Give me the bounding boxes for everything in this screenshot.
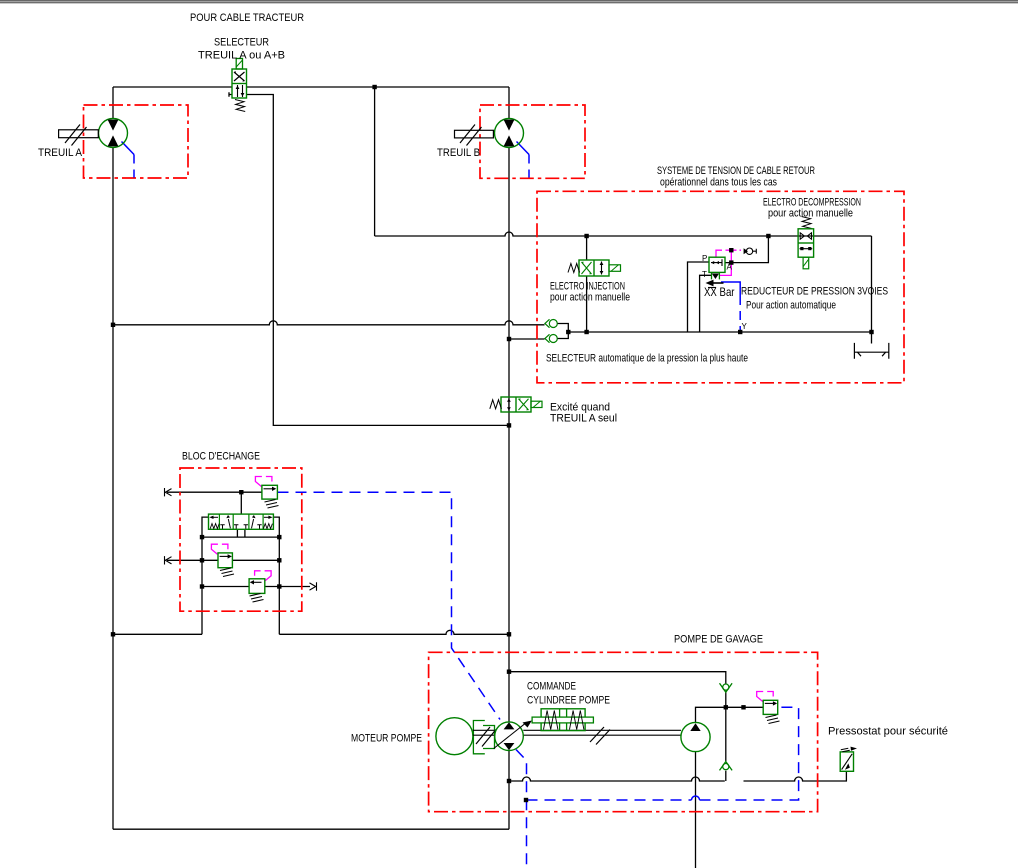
wire check valve to relief node bbox=[725, 693, 727, 708]
hydraulic motor winch A bbox=[99, 119, 128, 148]
svg-text:REDUCTEUR DE PRESSION 3VOIES: REDUCTEUR DE PRESSION 3VOIES bbox=[741, 286, 888, 298]
wire charge pump suction to tank x=695.5 bbox=[695, 752, 697, 868]
wire tension system feed line y=236 with jump over winch B line bbox=[375, 232, 872, 236]
valve V2 electro decompression bbox=[798, 217, 814, 269]
wire shuttle outlet node bbox=[558, 324, 569, 339]
svg-text:TREUIL A seul: TREUIL A seul bbox=[550, 413, 617, 425]
shaft winch A bbox=[59, 125, 99, 146]
tank symbol tension system bbox=[854, 343, 888, 359]
MAGENTA bbox=[211, 250, 773, 701]
enclosure box exchange block bbox=[180, 468, 302, 611]
svg-text:TREUIL A ou A+B: TREUIL A ou A+B bbox=[198, 50, 285, 62]
wire pump low pressure line y=781 with jumps bbox=[509, 777, 725, 781]
wire winch B tap to shuttle bottom y=339 bbox=[509, 338, 545, 340]
wire exchange valve top port x=241.3 bbox=[240, 492, 242, 514]
enclosure box charge pump bbox=[429, 652, 818, 811]
wire anti-cavitation check branch x=725.8 bbox=[725, 707, 727, 781]
enclosure box cable tension system bbox=[537, 191, 904, 382]
svg-text:SELECTEUR automatique de la pr: SELECTEUR automatique de la pression la … bbox=[546, 353, 748, 365]
fixed charge pump bbox=[681, 722, 710, 751]
wire relief supply line y=707.3 bbox=[696, 707, 764, 722]
drain line relief valve return with jump over suction line bbox=[527, 799, 692, 801]
drain line winch A bbox=[122, 142, 135, 155]
wire exchange right vertical x=279.3 bbox=[278, 537, 280, 634]
relief valve E3 exchange block bottom bbox=[249, 579, 265, 602]
junction nodes bbox=[372, 85, 376, 89]
wire exchange block top line y=492.2 bbox=[167, 491, 262, 493]
wire selector second outlet to node y=425 bbox=[229, 92, 509, 425]
wire reducer P-port supply bbox=[688, 262, 710, 332]
wire main pressure line A-B top y=87 bbox=[113, 86, 509, 88]
test point port B exchange bottom line bbox=[310, 582, 317, 590]
pilot bracket exchange valve 2 bbox=[211, 544, 228, 554]
variable displacement pump main bbox=[494, 721, 532, 751]
svg-text:POUR CABLE TRACTEUR: POUR CABLE TRACTEUR bbox=[190, 12, 304, 24]
wire winch B vertical x=509 bbox=[508, 87, 510, 829]
test coupling on reducer pilot bbox=[744, 248, 757, 254]
wire decompression outlet drop x=871.5 to tank bbox=[871, 236, 873, 344]
wire pressostat line y=781 with jump over blue drain bbox=[744, 771, 847, 781]
relief valve charge pressure bbox=[763, 700, 779, 723]
wire bottom return y=829.2 bbox=[113, 828, 509, 830]
svg-text:CYLINDREE POMPE: CYLINDREE POMPE bbox=[527, 695, 610, 707]
shaft winch B bbox=[455, 125, 494, 146]
pilot bracket charge relief valve bbox=[757, 692, 774, 702]
drain line pump case to tank bbox=[516, 750, 527, 868]
wire pilot line to shuttle top y=324.8 with crossover jumps bbox=[113, 321, 545, 325]
pilot bracket exchange valve 1 bbox=[255, 477, 272, 487]
svg-text:pour action manuelle: pour action manuelle bbox=[550, 292, 630, 304]
svg-text:Y: Y bbox=[742, 322, 748, 331]
top window border bar bbox=[0, 0, 1018, 1]
valve V1 selector winch A or A+B bbox=[232, 59, 247, 112]
wire charge pump top line y=671.7 bbox=[509, 672, 726, 684]
svg-text:POMPE DE GAVAGE: POMPE DE GAVAGE bbox=[674, 634, 763, 646]
enclosure box winch B bbox=[480, 105, 585, 178]
wire reducer T-port return bbox=[700, 275, 712, 332]
check valve anti-cavitation bbox=[720, 762, 733, 771]
hydraulic motor winch B bbox=[495, 119, 524, 148]
wire exchange left vertical x=202 bbox=[201, 537, 203, 634]
pilot line reducer sensing network bbox=[716, 250, 722, 257]
relief valve E1 exchange block top bbox=[262, 485, 279, 508]
svg-text:BLOC D'ECHANGE: BLOC D'ECHANGE bbox=[182, 451, 260, 463]
check valve charge top bbox=[720, 683, 733, 692]
svg-text:T: T bbox=[702, 270, 707, 279]
pilot bracket exchange valve 3 bbox=[255, 571, 272, 581]
shuttle valve automatic selector bbox=[545, 319, 557, 342]
svg-text:SYSTEME DE TENSION DE CABLE RE: SYSTEME DE TENSION DE CABLE RETOUR bbox=[657, 165, 815, 177]
enclosure box winch A bbox=[84, 105, 189, 178]
svg-text:MOTEUR POMPE: MOTEUR POMPE bbox=[351, 733, 422, 745]
valve V3 electro injection bbox=[568, 260, 621, 276]
wire branch from top line to tension system x=374.6 bbox=[374, 87, 376, 236]
valve V4 pressure reducer 3 ways bbox=[706, 257, 726, 287]
wire exchange middle line y=560.3 bbox=[167, 559, 279, 561]
drain line exchange block to pump case bbox=[278, 492, 501, 719]
wire winch A vertical x=113 bbox=[112, 87, 114, 829]
svg-text:TREUIL A: TREUIL A bbox=[38, 147, 83, 159]
test point port A1 exchange top line bbox=[165, 488, 172, 496]
electric motor pump drive bbox=[436, 718, 473, 755]
svg-text:TREUIL B: TREUIL B bbox=[437, 147, 480, 159]
wire reducer A-port up to feed line bbox=[725, 236, 768, 263]
wire electro injection branch x=586.6 bbox=[586, 236, 588, 332]
wire selected pressure line y=332 bbox=[568, 331, 871, 333]
svg-text:SELECTEUR: SELECTEUR bbox=[214, 37, 269, 49]
svg-text:COMMANDE: COMMANDE bbox=[527, 681, 576, 693]
svg-text:opérationnel dans tous les cas: opérationnel dans tous les cas bbox=[660, 177, 777, 189]
wire exchange bottom line y=586.5 bbox=[202, 586, 310, 588]
drain line reducer Y port bbox=[721, 282, 740, 296]
valve V5 energized when winch A alone bbox=[490, 397, 542, 412]
displacement control cylinder bbox=[532, 709, 593, 731]
svg-text:Pressostat pour sécurité: Pressostat pour sécurité bbox=[828, 726, 948, 738]
svg-text:XX Bar: XX Bar bbox=[704, 285, 735, 299]
pressure switch pressostat bbox=[840, 747, 857, 772]
svg-text:pour action manuelle: pour action manuelle bbox=[768, 208, 853, 220]
wire exchange valve side and bottom ports bbox=[202, 517, 279, 537]
svg-text:A: A bbox=[727, 263, 733, 272]
drive shaft lines bbox=[473, 727, 681, 747]
relief valve E2 exchange block middle bbox=[218, 553, 234, 577]
svg-text:Pour action automatique: Pour action automatique bbox=[746, 300, 836, 312]
wire exchange loop bar y=537.1 bbox=[202, 536, 279, 538]
RED BOXES bbox=[84, 105, 905, 812]
wire return header y=634.3 with jump over blue drain bbox=[113, 630, 509, 634]
test point port A2 exchange middle line bbox=[165, 556, 172, 564]
coupling motor-pump bbox=[473, 721, 494, 754]
BLUE LINES bbox=[122, 142, 799, 868]
svg-text:P: P bbox=[702, 254, 707, 263]
drain line winch B bbox=[517, 142, 530, 155]
directional valve E0 exchange block 5-chamber bbox=[209, 514, 274, 529]
